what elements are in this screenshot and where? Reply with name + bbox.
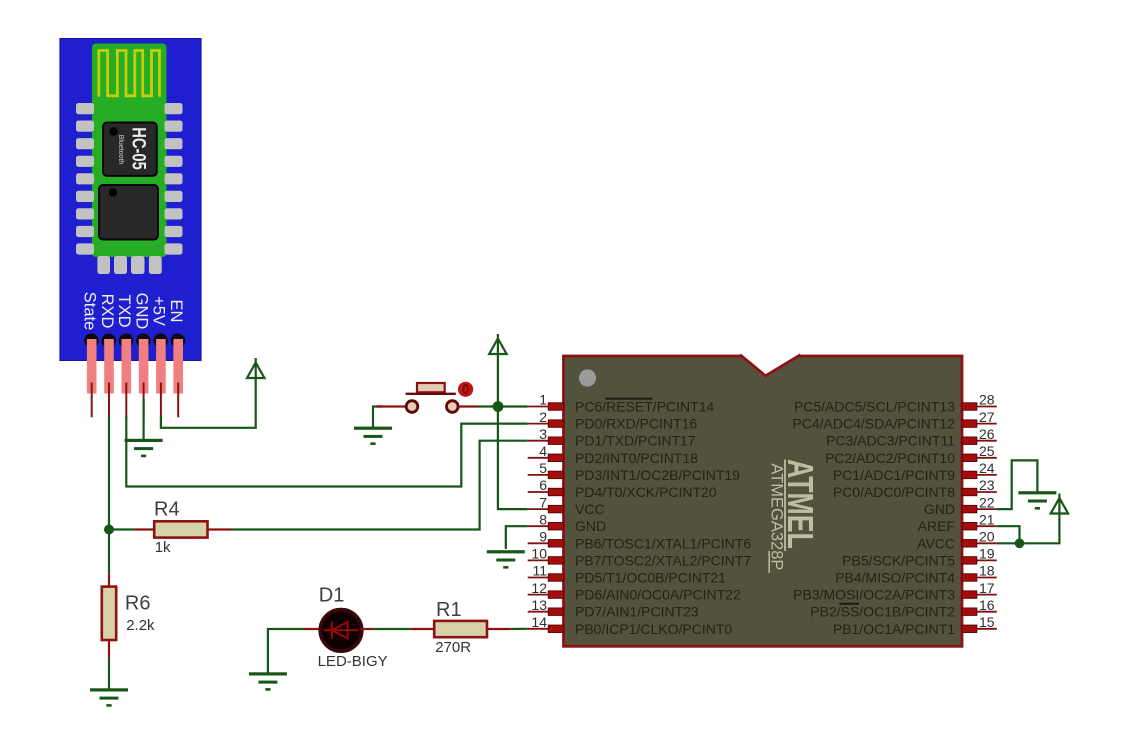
HC-05 second chip <box>99 185 158 240</box>
svg-text:D1: D1 <box>319 585 345 607</box>
svg-text:PD0/RXD/PCINT16: PD0/RXD/PCINT16 <box>575 416 697 432</box>
HC-05 green PCB <box>92 44 167 258</box>
svg-text:GND: GND <box>575 518 606 534</box>
svg-text:State: State <box>81 292 99 331</box>
svg-text:21: 21 <box>979 511 995 527</box>
svg-text:9: 9 <box>539 529 547 545</box>
power terminal for HC-05 +5V (+V arrow) <box>247 358 264 378</box>
wire: junction to R4 left lead <box>109 528 135 530</box>
svg-text:PB0/ICP1/CLKO/PCINT0: PB0/ICP1/CLKO/PCINT0 <box>575 621 732 637</box>
svg-text:7: 7 <box>539 494 547 510</box>
wire: ground up to button <box>373 407 382 428</box>
LED D1 right lead <box>361 628 374 630</box>
HC-05 bottom solder pads <box>97 256 161 274</box>
wire: ATMEGA pin22 GND to ground <box>997 460 1038 509</box>
HC-05 pin holes <box>84 334 185 348</box>
svg-text:5: 5 <box>539 460 547 476</box>
HC-05 module pins (salmon) <box>87 339 183 394</box>
svg-text:PB5/SCK/PCINT5: PB5/SCK/PCINT5 <box>842 552 955 568</box>
svg-text:R6: R6 <box>125 593 151 615</box>
wire: ATMEGA pin21 AREF down to AVCC net <box>997 526 1020 543</box>
push button body <box>406 383 459 412</box>
ATMEGA328P pin numbers 1-28 <box>531 392 994 630</box>
microcontroller U1 ATMEGA328P body <box>564 356 963 646</box>
resistor R4 right lead <box>208 528 232 530</box>
resistor R6 top lead <box>108 573 110 586</box>
svg-text:23: 23 <box>979 477 995 493</box>
wire: ATMEGA pin8 GND to ground <box>506 526 528 549</box>
svg-text:VCC: VCC <box>575 501 605 517</box>
svg-text:ATMEGA328P: ATMEGA328P <box>767 463 785 570</box>
node: divider junction (R4/R6/HC-05 RXD) <box>104 525 114 535</box>
svg-text:PC0/ADC0/PCINT8: PC0/ADC0/PCINT8 <box>833 484 955 500</box>
svg-text:24: 24 <box>979 460 995 476</box>
svg-text:GND: GND <box>132 293 150 330</box>
svg-text:EN: EN <box>167 300 185 323</box>
wire: junction down to R6 <box>108 530 110 574</box>
svg-text:PB3/MOSI/OC2A/PCINT3: PB3/MOSI/OC2A/PCINT3 <box>793 587 955 603</box>
wire: LED to R1 <box>373 628 410 630</box>
ATMEGA328P pin names <box>575 399 955 637</box>
svg-text:PB4/MISO/PCINT4: PB4/MISO/PCINT4 <box>835 570 955 586</box>
svg-text:PC2/ADC2/PCINT10: PC2/ADC2/PCINT10 <box>825 450 955 466</box>
wire: HC-05 TXD to ATMEGA pin2 (PD0/RXD) <box>126 416 527 487</box>
wire: R4 to ATMEGA pin3 (PD1/TXD) <box>232 441 528 530</box>
node: reset junction <box>493 401 504 412</box>
svg-text:19: 19 <box>979 546 995 562</box>
svg-text:PB2/SS/OC1B/PCINT2: PB2/SS/OC1B/PCINT2 <box>810 604 955 620</box>
svg-text:2.2k: 2.2k <box>126 617 155 634</box>
svg-text:R1: R1 <box>436 599 462 621</box>
svg-text:PD4/T0/XCK/PCINT20: PD4/T0/XCK/PCINT20 <box>575 484 717 500</box>
power terminal for AVCC (+V arrow) <box>1051 494 1068 514</box>
svg-text:PB7/TOSC2/XTAL2/PCINT7: PB7/TOSC2/XTAL2/PCINT7 <box>575 552 751 568</box>
resistor R4 left lead <box>135 528 154 530</box>
svg-text:1: 1 <box>539 392 547 408</box>
svg-text:11: 11 <box>532 563 547 579</box>
wire: ATMEGA pin20 AVCC to power terminal <box>997 513 1060 544</box>
svg-text:RXD: RXD <box>98 294 116 329</box>
overline on SS (pin16) <box>840 603 860 605</box>
svg-text:PD5/T1/OC0B/PCINT21: PD5/T1/OC0B/PCINT21 <box>575 570 726 586</box>
LED D1 left lead <box>305 628 322 630</box>
svg-text:PD2/INT0/PCINT18: PD2/INT0/PCINT18 <box>575 450 698 466</box>
power terminal for RESET/VCC rail (+V arrow) <box>489 334 506 354</box>
push button red actuator <box>458 382 473 397</box>
wire: button to reset junction <box>478 405 499 407</box>
HC-05 pin labels State RXD TXD GND +5V EN <box>81 292 186 331</box>
wire: HC-05 +5V to power terminal <box>161 378 256 428</box>
svg-text:17: 17 <box>979 580 995 596</box>
svg-text:3: 3 <box>539 426 547 442</box>
HC-05 bluetooth module: blue carrier board <box>60 39 201 361</box>
HC-05 side solder pads <box>76 103 183 255</box>
svg-text:26: 26 <box>979 426 995 442</box>
svg-text:20: 20 <box>979 529 995 545</box>
resistor R6 bottom lead <box>108 640 110 657</box>
HC-05 RF chip U-top (HC-05 label) <box>103 123 157 176</box>
LED D1 <box>320 610 362 652</box>
push button right lead <box>458 405 478 407</box>
ground below ATMEGA pin8 <box>487 550 525 568</box>
resistor R6 body <box>102 587 116 640</box>
svg-text:PC3/ADC3/PCINT11: PC3/ADC3/PCINT11 <box>826 433 955 449</box>
overline on RESET (pin1) <box>606 398 653 400</box>
HC-05 antenna meander trace <box>99 51 160 97</box>
ATMEGA328P pin-1 marker dot <box>579 369 596 386</box>
resistor R1 body <box>434 621 487 637</box>
svg-text:GND: GND <box>924 501 955 517</box>
resistor R4 body <box>154 521 207 537</box>
wire: HC-05 RXD down to divider junction <box>108 416 110 530</box>
svg-text:+5V: +5V <box>150 296 168 326</box>
push button left lead <box>376 405 406 407</box>
wire: R1 to ATMEGA pin14 <box>511 628 528 630</box>
ATMEGA328P top notch <box>740 354 801 376</box>
svg-text:25: 25 <box>979 443 995 459</box>
ATMEL logo <box>767 459 821 573</box>
svg-text:PC1/ADC1/PCINT9: PC1/ADC1/PCINT9 <box>833 467 955 483</box>
HC-05 pin leads <box>92 383 179 418</box>
svg-text:HC-05: HC-05 <box>128 127 149 170</box>
svg-text:13: 13 <box>531 597 547 613</box>
svg-text:TXD: TXD <box>115 295 133 328</box>
svg-text:PB1/OC1A/PCINT1: PB1/OC1A/PCINT1 <box>833 621 955 637</box>
svg-text:R4: R4 <box>154 499 180 521</box>
ground left of LED D1 <box>249 672 287 690</box>
svg-text:AREF: AREF <box>918 518 955 534</box>
wire: HC-05 GND down to ground <box>143 399 145 440</box>
ground right of ATMEGA pin22 <box>1018 491 1056 509</box>
wire: junction to ATMEGA pin1 (RESET) <box>498 405 528 407</box>
node: AREF/AVCC junction <box>1015 539 1025 549</box>
svg-text:2: 2 <box>539 409 547 425</box>
svg-text:PB6/TOSC1/XTAL1/PCINT6: PB6/TOSC1/XTAL1/PCINT6 <box>575 535 751 551</box>
ATMEGA328P pin leads <box>528 407 997 629</box>
svg-text:PD1/TXD/PCINT17: PD1/TXD/PCINT17 <box>575 433 696 449</box>
svg-text:6: 6 <box>539 477 547 493</box>
svg-text:18: 18 <box>979 563 995 579</box>
wire: ground up to LED anode line <box>268 629 305 673</box>
svg-text:PC6/RESET/PCINT14: PC6/RESET/PCINT14 <box>575 399 714 415</box>
svg-text:Bluetooth: Bluetooth <box>117 135 124 165</box>
svg-text:PD6/AIN0/OC0A/PCINT22: PD6/AIN0/OC0A/PCINT22 <box>575 587 741 603</box>
ground under HC-05 GND pin <box>125 439 163 457</box>
resistor R1 right lead <box>487 628 511 630</box>
svg-text:22: 22 <box>979 494 995 510</box>
svg-text:270R: 270R <box>435 639 471 656</box>
svg-text:PD7/AIN1/PCINT23: PD7/AIN1/PCINT23 <box>575 604 699 620</box>
svg-text:1k: 1k <box>155 539 171 556</box>
svg-text:27: 27 <box>979 409 995 425</box>
svg-text:4: 4 <box>539 443 547 459</box>
svg-text:14: 14 <box>531 614 547 630</box>
svg-text:8: 8 <box>539 511 547 527</box>
wire: R6 to ground <box>108 657 110 689</box>
svg-text:28: 28 <box>979 392 995 408</box>
ground left of push button <box>354 427 392 445</box>
svg-text:LED-BIGY: LED-BIGY <box>318 653 388 670</box>
svg-text:AVCC: AVCC <box>917 535 955 551</box>
svg-text:PC4/ADC4/SDA/PCINT12: PC4/ADC4/SDA/PCINT12 <box>792 416 955 432</box>
ground below R6 <box>90 688 128 706</box>
ATMEGA328P pin stubs <box>548 403 977 633</box>
svg-text:10: 10 <box>531 546 547 562</box>
svg-text:15: 15 <box>979 614 995 630</box>
svg-text:12: 12 <box>531 580 547 596</box>
resistor R1 left lead <box>410 628 434 630</box>
svg-text:16: 16 <box>979 597 995 613</box>
svg-text:PC5/ADC5/SCL/PCINT13: PC5/ADC5/SCL/PCINT13 <box>794 399 955 415</box>
wire: power rail down through reset junction to pin7 VCC <box>498 354 528 510</box>
svg-text:PD3/INT1/OC2B/PCINT19: PD3/INT1/OC2B/PCINT19 <box>575 467 740 483</box>
